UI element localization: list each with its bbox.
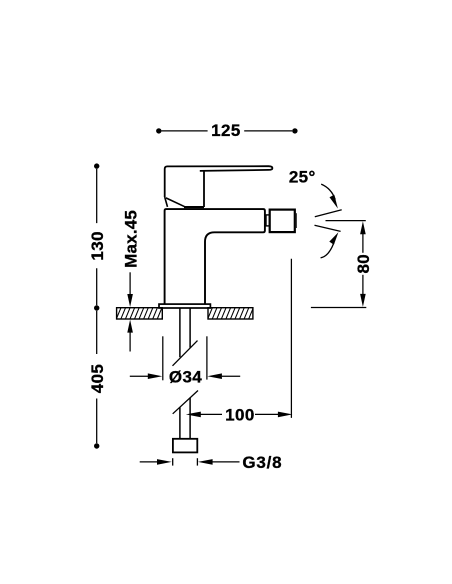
- svg-text:G3/8: G3/8: [242, 453, 282, 472]
- svg-text:100: 100: [225, 406, 255, 425]
- dimension 100 right arrowhead: [278, 412, 293, 418]
- spout neck connector: [266, 215, 269, 226]
- svg-text:25°: 25°: [289, 168, 316, 187]
- G3/8 right tick: [196, 458, 198, 465]
- threaded shank lower segment: [180, 398, 190, 439]
- aerator right tab: [295, 213, 297, 228]
- faucet handle lever: [203, 171, 205, 207]
- handle base chamfer outer edge: [165, 197, 168, 207]
- O34 right tail: [222, 375, 241, 377]
- left column bottom dot: [94, 443, 99, 448]
- svg-text:130: 130: [88, 231, 107, 261]
- Max.45 up arrowhead: [127, 320, 133, 333]
- dimension G3/8 left tail: [140, 461, 158, 463]
- left dimension column line: [96, 169, 98, 443]
- dimension 80 top extension line: [326, 220, 366, 222]
- O34 left tail: [130, 375, 148, 377]
- spout tip vertical extension line: [290, 259, 292, 418]
- G3/8 left tick: [172, 458, 174, 465]
- stream angle upper slant line: [315, 210, 342, 217]
- Max.45 upper leader line: [129, 272, 131, 296]
- svg-text:80: 80: [354, 254, 373, 274]
- O34 right arrowhead: [207, 373, 222, 379]
- dimension O34 right extension line: [206, 336, 208, 379]
- svg-text:405: 405: [88, 364, 107, 394]
- dimension 100 left arrowhead: [186, 412, 201, 418]
- stream angle lower slant line: [315, 225, 341, 231]
- dimension 125 line right: [244, 130, 292, 132]
- base flange: [159, 304, 210, 308]
- dimension 100 line right: [255, 413, 278, 415]
- handle base chamfer diagonal: [166, 198, 185, 207]
- G3/8 right tail: [212, 461, 239, 463]
- svg-text:Max.45: Max.45: [122, 210, 141, 268]
- shank break slash 1: [173, 341, 198, 366]
- Max.45 lower leader line: [129, 331, 131, 352]
- upper curved arrow: [321, 184, 335, 199]
- threaded shank upper segment: [180, 308, 190, 357]
- left column middle dot: [94, 305, 99, 310]
- 80 line lower: [362, 275, 364, 295]
- faucet body and spout arm: [165, 209, 265, 304]
- 80 line upper: [362, 234, 364, 253]
- 80 up arrowhead: [360, 221, 366, 234]
- O34 left arrowhead: [148, 373, 163, 379]
- handle base bottom edge: [184, 206, 204, 208]
- dimension 125 right dot: [292, 128, 297, 133]
- supply nut G3/8: [173, 439, 197, 453]
- shank break slash 2: [173, 391, 198, 414]
- dimension 125 left dot: [156, 128, 161, 133]
- svg-text:125: 125: [211, 121, 241, 140]
- G3/8 left arrowhead: [157, 459, 172, 465]
- G3/8 right arrowhead: [198, 459, 213, 465]
- svg-text:Ø34: Ø34: [169, 368, 202, 387]
- dimension 125 line left: [162, 130, 208, 132]
- countertop right hatched block: [203, 307, 258, 319]
- dimension O34 left extension line: [162, 336, 164, 380]
- Max.45 down arrowhead: [127, 294, 133, 307]
- countertop left hatched block: [112, 307, 167, 319]
- lower curved arrow: [321, 243, 334, 258]
- aerator block: [270, 210, 295, 233]
- 80 down arrowhead: [360, 294, 366, 307]
- left column top dot: [94, 163, 99, 168]
- dimension 100 line left: [200, 413, 222, 415]
- dimension 80 bottom extension line: [311, 307, 366, 309]
